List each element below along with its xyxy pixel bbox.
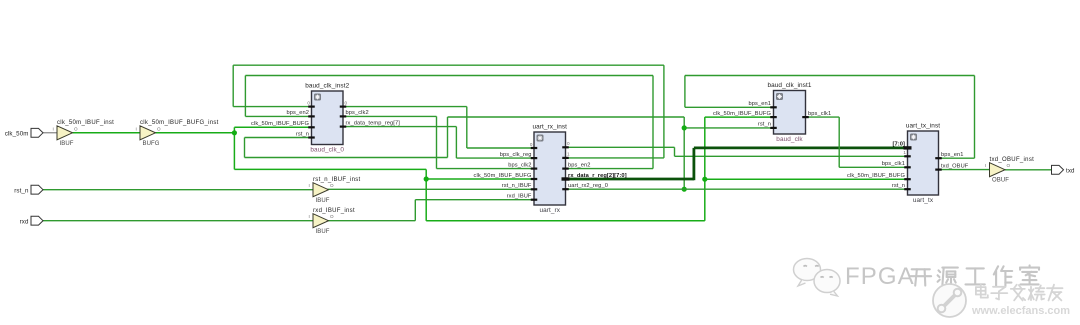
svg-text:txd_OBUF: txd_OBUF [941, 163, 969, 169]
svg-text:bps_en1: bps_en1 [941, 152, 964, 158]
wire net rx_data_temp_reg[7] to uart_rx bps_clk_reg [343, 127, 534, 159]
svg-text:I: I [309, 183, 310, 188]
svg-text:O: O [157, 126, 161, 131]
svg-text:bps_en1: bps_en1 [748, 101, 771, 107]
wire net rst_n from port to IBUF [43, 189, 313, 191]
module uart_tx_inst (uart_tx) [847, 123, 969, 205]
wire bus rx_data_r_reg[7:0] (uart_rx to uart_tx) [566, 148, 908, 180]
svg-text:txd: txd [1066, 168, 1075, 175]
svg-text:O: O [74, 126, 78, 131]
wire net clk_50m from port to IBUF [43, 132, 57, 134]
svg-text:clk_50m_IBUF_inst: clk_50m_IBUF_inst [57, 120, 114, 126]
svg-text:uart_tx_inst: uart_tx_inst [906, 123, 940, 130]
watermark elecfans logo [933, 284, 966, 317]
buffer U-BUFG clk_50m_IBUF_BUFG_inst [136, 120, 219, 147]
svg-text:uart_rx_inst: uart_rx_inst [532, 124, 567, 131]
junction clk net at BUFG output [232, 130, 237, 135]
svg-text:bps_en2: bps_en2 [568, 162, 591, 168]
module baud_clk_inst1 (baud_clk) [713, 82, 831, 143]
svg-text:clk_50m_IBUF_BUFG: clk_50m_IBUF_BUFG [251, 121, 309, 127]
svg-text:clk_50m_IBUF_BUFG: clk_50m_IBUF_BUFG [847, 173, 905, 179]
svg-text:clk_50m_IBUF_BUFG_inst: clk_50m_IBUF_BUFG_inst [140, 120, 219, 126]
input port clk_50m [5, 128, 43, 137]
wire net baud_clk_inst2 top output to uart_rx pin1 [343, 107, 534, 148]
input port rst_n [14, 185, 43, 194]
wire net uart_rx2_reg_0 to uart_tx rst_n [566, 188, 908, 190]
svg-text:0: 0 [307, 100, 310, 105]
wire net clk_50m_IBUF_BUFG clock distribution [156, 117, 908, 221]
svg-text:O: O [330, 214, 334, 219]
svg-text:uart_rx: uart_rx [539, 207, 560, 214]
svg-text:rst_n_IBUF_inst: rst_n_IBUF_inst [313, 177, 361, 183]
wire net bps_en2 (uart_rx to baud_clk_inst2) [245, 76, 653, 169]
svg-text:I: I [985, 163, 986, 168]
svg-text:rx_data_temp_reg[7]: rx_data_temp_reg[7] [346, 120, 401, 126]
svg-text:uart_rx2_reg_0: uart_rx2_reg_0 [568, 183, 608, 189]
svg-text:baud_clk_inst2: baud_clk_inst2 [305, 83, 349, 90]
svg-text:bps_clk2: bps_clk2 [346, 110, 369, 116]
wire net uart_rx feedback to baud_clk_inst2 top pin [233, 65, 664, 158]
wire net txd (OBUF to port) [1005, 169, 1052, 171]
svg-text:O: O [330, 183, 334, 188]
junction clk net to uart_tx clk pin [702, 177, 707, 182]
svg-text:0: 0 [345, 100, 348, 105]
svg-text:bps_clk_reg: bps_clk_reg [500, 152, 532, 158]
svg-text:baud_clk: baud_clk [776, 136, 803, 143]
svg-text:IBUF: IBUF [60, 141, 74, 147]
svg-text:0: 0 [530, 142, 533, 147]
svg-text:bps_clk2: bps_clk2 [508, 162, 531, 168]
svg-text:txd_OBUF_inst: txd_OBUF_inst [990, 157, 1035, 163]
wire net txd_OBUF (uart_tx to OBUF) [939, 169, 990, 171]
svg-text:I: I [53, 126, 54, 131]
svg-text:1: 1 [903, 150, 906, 155]
junction rst_n net at uart_rx2_reg_0 line [682, 187, 687, 192]
svg-text:0: 0 [567, 141, 570, 146]
svg-text:rst_n: rst_n [14, 188, 29, 195]
module baud_clk_inst2 (baud_clk_0) [251, 83, 400, 154]
svg-text:baud_clk_inst1: baud_clk_inst1 [767, 82, 811, 89]
input port rxd [20, 216, 43, 225]
buffer U-IBUF rxd_IBUF_inst [309, 208, 355, 235]
svg-text:rst_n: rst_n [296, 131, 309, 137]
watermark WeChat logo [794, 259, 841, 297]
watermark text dianzifashaoyou [976, 285, 1064, 302]
svg-text:IBUF: IBUF [316, 229, 330, 235]
svg-text:www.elecfans.com: www.elecfans.com [971, 305, 1070, 317]
watermark text www.elecfans.com [971, 305, 1071, 318]
wire net rst_n_IBUF to uart_rx [328, 188, 535, 190]
buffer U-IBUF clk_50m_IBUF_inst [53, 120, 115, 147]
svg-text:O: O [1007, 163, 1011, 168]
svg-text:I: I [136, 126, 137, 131]
wire net rxd_IBUF to uart_rx [328, 200, 535, 221]
svg-text:rxd_IBUF: rxd_IBUF [507, 194, 532, 200]
svg-text:I: I [309, 214, 310, 219]
junction rst_n net to baud_clk_inst1 rst pin [682, 125, 687, 130]
wire net uart_rx top output to uart_tx pin [566, 147, 908, 156]
svg-text:[7:0]: [7:0] [892, 142, 905, 148]
svg-text:FPGA: FPGA [845, 263, 915, 290]
output port txd [1052, 165, 1076, 174]
svg-text:uart_tx: uart_tx [913, 197, 934, 204]
svg-text:OBUF: OBUF [992, 178, 1009, 184]
svg-text:clk_50m_IBUF_BUFG: clk_50m_IBUF_BUFG [713, 111, 771, 117]
buffer U-IBUF rst_n_IBUF_inst [309, 177, 361, 204]
wire net bps_clk2 (baud_clk_inst2 to uart_rx) [343, 116, 534, 168]
module uart_rx_inst (uart_rx) [474, 124, 627, 215]
svg-text:rxd: rxd [20, 219, 29, 226]
wire net rst_n distribution (baud_clk blocks and uart_tx) [245, 117, 774, 189]
wire net bps_clk1 (baud_clk_inst1 to uart_tx) [806, 117, 908, 167]
svg-text:clk_50m: clk_50m [5, 131, 29, 138]
watermark text FPGA kai-yuan workshop [845, 263, 1040, 291]
wire net rxd from port to IBUF [43, 220, 313, 222]
svg-text:IBUF: IBUF [316, 198, 330, 204]
svg-text:bps_clk1: bps_clk1 [882, 161, 905, 167]
buffer U-OBUF txd_OBUF_inst [985, 157, 1034, 184]
svg-text:1: 1 [567, 152, 570, 157]
svg-text:bps_en2: bps_en2 [286, 110, 309, 116]
junction clk net to uart_rx clk pin [424, 176, 429, 181]
svg-text:rst_n_IBUF: rst_n_IBUF [502, 183, 532, 189]
wire net clk_50m_IBUF (IBUF out to BUFG in) [73, 132, 141, 134]
svg-text:rxd_IBUF_inst: rxd_IBUF_inst [313, 208, 355, 214]
svg-text:rst_n: rst_n [892, 183, 905, 189]
svg-text:BUFG: BUFG [143, 141, 160, 147]
svg-text:rx_data_r_reg[2][7:0]: rx_data_r_reg[2][7:0] [568, 173, 627, 179]
svg-text:bps_clk1: bps_clk1 [808, 111, 831, 117]
svg-text:baud_clk_0: baud_clk_0 [310, 147, 344, 154]
wire net bps_en1 (uart_tx to baud_clk_inst1) [685, 76, 975, 159]
svg-text:clk_50m_IBUF_BUFG: clk_50m_IBUF_BUFG [474, 173, 532, 179]
svg-text:rst_n: rst_n [758, 122, 771, 128]
